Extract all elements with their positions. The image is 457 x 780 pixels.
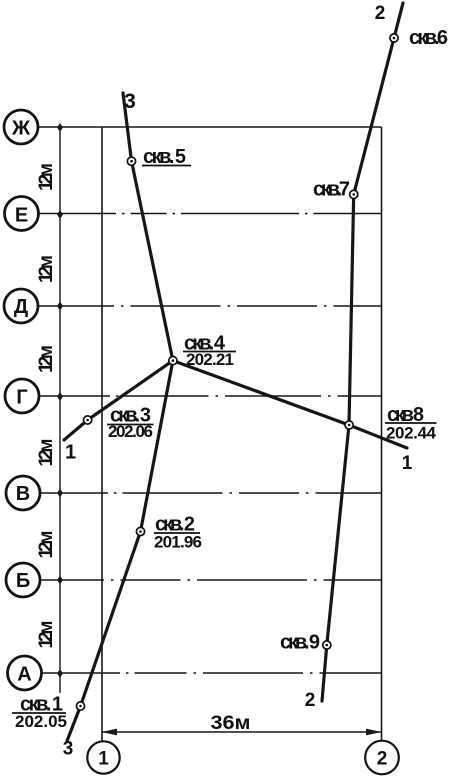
svg-text:1: 1	[402, 453, 413, 474]
svg-text:1: 1	[65, 442, 76, 464]
svg-text:12 м: 12 м	[36, 345, 57, 373]
svg-text:Б: Б	[16, 570, 30, 592]
svg-text:скв.7: скв.7	[313, 179, 350, 201]
svg-text:202.44: 202.44	[386, 424, 437, 443]
svg-text:12 м: 12 м	[36, 255, 57, 283]
svg-text:2: 2	[305, 690, 316, 711]
svg-text:12 м: 12 м	[36, 163, 57, 191]
svg-text:12 м: 12 м	[36, 621, 57, 649]
svg-text:А: А	[17, 664, 31, 686]
svg-text:1: 1	[98, 748, 109, 769]
svg-text:3: 3	[63, 739, 74, 760]
svg-text:скв.6: скв.6	[409, 27, 448, 49]
svg-text:12 м: 12 м	[36, 439, 57, 467]
svg-text:скв. 9: скв. 9	[280, 632, 320, 654]
svg-text:36м: 36м	[211, 713, 251, 734]
svg-text:2: 2	[375, 3, 386, 24]
svg-text:Ж: Ж	[11, 118, 31, 140]
svg-text:3: 3	[124, 90, 136, 113]
svg-text:202.21: 202.21	[186, 350, 234, 369]
svg-text:Д: Д	[14, 296, 28, 318]
svg-text:Е: Е	[15, 205, 28, 227]
svg-text:В: В	[16, 483, 30, 505]
svg-text:2: 2	[377, 748, 388, 769]
svg-text:202.05: 202.05	[15, 712, 67, 731]
svg-text:12 м: 12 м	[36, 531, 57, 559]
svg-text:201.96: 201.96	[154, 533, 202, 552]
svg-text:202.06: 202.06	[108, 422, 153, 441]
svg-text:скв. 5: скв. 5	[143, 146, 186, 168]
svg-text:Г: Г	[16, 387, 27, 409]
